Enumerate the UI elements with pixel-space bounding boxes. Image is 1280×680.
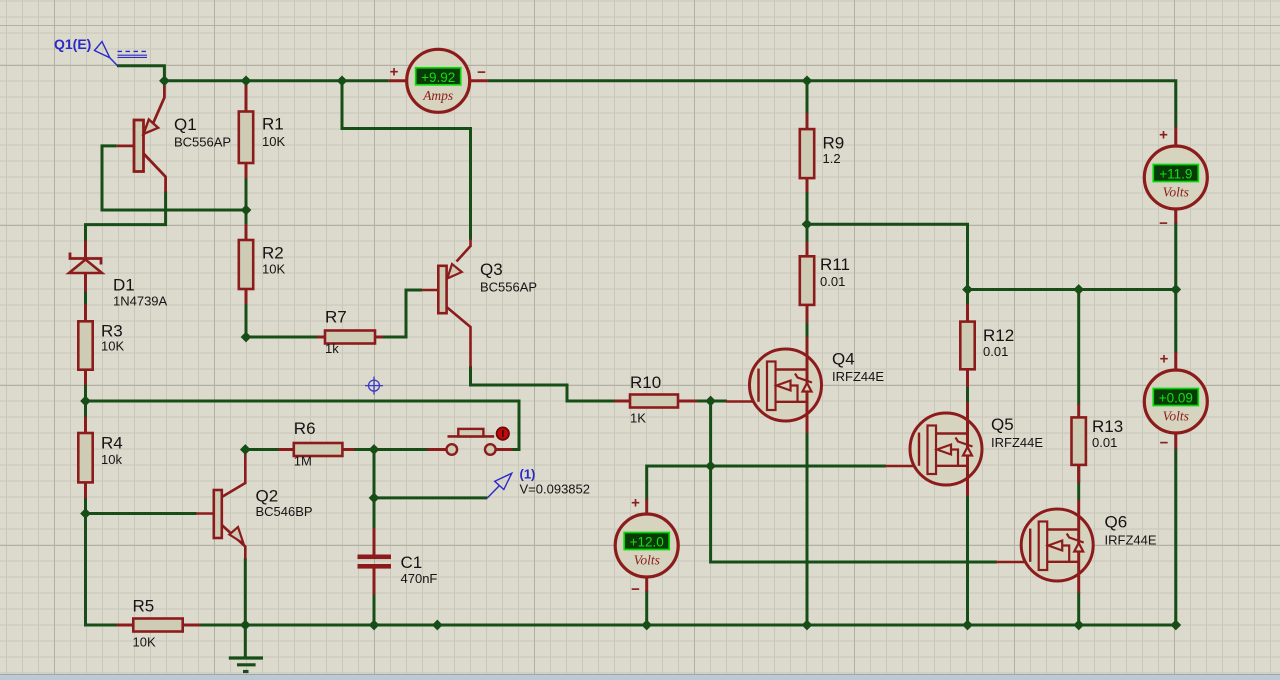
wire Q1 collector to D1 (86, 191, 166, 242)
svg-text:+: + (1160, 351, 1169, 368)
wire Q1 base stub (117, 144, 134, 147)
svg-text:−: − (631, 581, 640, 598)
wire ammeter stubs (389, 79, 407, 82)
svg-text:V=0.093852: V=0.093852 (520, 482, 590, 497)
svg-text:+0.09: +0.09 (1159, 391, 1193, 406)
resistor R3 (78, 321, 124, 369)
resistor R12 (960, 322, 1014, 370)
resistor R10 (630, 373, 678, 426)
origin marker (365, 377, 383, 395)
wire R11 stubs (806, 242, 809, 257)
wire C1 stubs (373, 528, 376, 555)
wire V2 stubs (1174, 352, 1177, 371)
wire R11 bottom to Q4 drain (806, 322, 809, 339)
wire Q1 emitter lead from rail (153, 81, 164, 124)
wire R7 row left (246, 336, 318, 339)
resistor R5 (133, 597, 183, 650)
svg-text:Q1(E): Q1(E) (54, 36, 91, 52)
wire left column down to bottom rail (86, 514, 118, 626)
wire R11 node across and down to R12 node (807, 224, 968, 289)
wire Q3 collector to R10 (471, 366, 616, 401)
svg-text:C1: C1 (401, 553, 423, 572)
wire R12 bottom to Q5 drain (966, 386, 969, 402)
wire R5 stubs (117, 624, 134, 627)
svg-text:IRFZ44E: IRFZ44E (832, 369, 884, 384)
svg-text:10K: 10K (262, 262, 285, 277)
wire R6 stubs (279, 448, 295, 451)
wire Q5 gate stub (885, 465, 919, 468)
svg-text:1M: 1M (294, 454, 312, 469)
svg-text:+12.0: +12.0 (630, 535, 664, 550)
wire V3 plus to Q5 gate row (647, 466, 886, 500)
svg-text:Q2: Q2 (256, 487, 279, 506)
resistor R13 (1072, 417, 1124, 465)
wire right column node down to V2 (1174, 290, 1177, 354)
svg-text:Volts: Volts (634, 553, 660, 568)
resistor R2 (239, 240, 286, 289)
wire top rail right segment to V1 (488, 81, 1176, 128)
svg-text:IRFZ44E: IRFZ44E (991, 435, 1043, 450)
wire R13 bottom to Q6 drain (1077, 464, 1080, 500)
wire ground stub (244, 625, 247, 657)
resistor R4 (78, 433, 122, 482)
wire Q6 source down to bottom rail (1077, 592, 1080, 625)
svg-text:BC556AP: BC556AP (480, 280, 537, 295)
wire R12 node row to right column (968, 288, 1176, 291)
svg-text:10k: 10k (101, 452, 122, 467)
svg-text:Q5: Q5 (991, 415, 1014, 434)
wire Q3 emitter to top rail (342, 81, 471, 240)
svg-text:10K: 10K (262, 134, 285, 149)
svg-text:470nF: 470nF (401, 571, 438, 586)
resistor R1 (239, 112, 286, 164)
wire R7 to Q3 base (383, 290, 423, 337)
wire R12 top stub (966, 290, 969, 306)
wire R9 stubs (806, 113, 809, 130)
wire Q2 emitter to bottom rail (244, 558, 247, 625)
wire V1 bottom to node row (1174, 223, 1177, 290)
wire C1 column upper (373, 450, 376, 529)
resistor R7 (325, 308, 375, 357)
wire R6 row left of body (245, 448, 279, 451)
svg-text:Q3: Q3 (480, 260, 503, 279)
resistor R9 (800, 129, 844, 178)
svg-text:+9.92: +9.92 (421, 70, 455, 85)
meter V1 (Volts +11.9) (1144, 146, 1207, 209)
svg-text:10K: 10K (101, 339, 124, 354)
svg-text:1k: 1k (325, 341, 339, 356)
transistor Q6 (IRFZ44E MOSFET) (1021, 500, 1157, 593)
transistor Q2 (BC546BP NPN) (196, 452, 313, 559)
svg-text:−: − (1160, 435, 1169, 452)
push-button switch (447, 427, 509, 454)
svg-text:R11: R11 (820, 255, 850, 274)
wire Q4 gate node column down to Q6 gate row (711, 401, 997, 562)
svg-text:0.01: 0.01 (1092, 435, 1117, 450)
svg-text:Volts: Volts (1163, 185, 1189, 200)
wire R2 stubs (245, 224, 248, 241)
wire R10 to Q4 gate node (696, 400, 727, 403)
wire Q4 source down to bottom rail (806, 432, 809, 625)
svg-text:+: + (1159, 127, 1168, 144)
transistor Q3 (BC556AP PNP) (422, 239, 537, 367)
svg-text:D1: D1 (113, 276, 135, 295)
svg-text:R13: R13 (1092, 417, 1123, 436)
svg-text:+11.9: +11.9 (1159, 167, 1192, 182)
resistor R6 (294, 419, 343, 469)
wire R1 stubs (245, 85, 248, 112)
wire V3 minus to bottom rail (645, 591, 648, 625)
svg-text:−: − (477, 64, 486, 81)
svg-text:Q4: Q4 (832, 350, 855, 369)
svg-text:0.01: 0.01 (820, 274, 845, 289)
svg-text:+: + (390, 64, 399, 81)
wire R9 bottom to R11 node (806, 191, 809, 224)
voltage probe (1) (487, 467, 590, 498)
svg-text:BC556AP: BC556AP (174, 134, 231, 149)
wire R4 bottom to Q2 base node (84, 497, 87, 514)
wire R9 top stub from rail (806, 81, 809, 114)
svg-text:+: + (631, 495, 640, 512)
wire R10 stubs (615, 400, 631, 403)
meter A1 (Amps +9.92) (407, 49, 470, 112)
svg-text:BC546BP: BC546BP (256, 504, 313, 519)
wire R1 bottom to node (245, 177, 248, 210)
resistor R11 (800, 255, 850, 305)
svg-text:IRFZ44E: IRFZ44E (1105, 533, 1157, 548)
wire R13 stubs (1077, 404, 1080, 418)
capacitor C1 (470nF) (358, 553, 438, 586)
wire D1 to R3 segment (84, 291, 87, 305)
wire C1 bottom to rail (373, 594, 376, 626)
wire R12 stubs (966, 304, 969, 322)
svg-text:Amps: Amps (422, 88, 453, 103)
wire V3 stubs (645, 499, 648, 515)
wire R13 column from node (1077, 290, 1080, 406)
wire R3 bottom through node to R4 (84, 384, 87, 418)
svg-text:1.2: 1.2 (823, 151, 841, 166)
wire R4 stubs (84, 417, 87, 434)
svg-text:(1): (1) (520, 467, 536, 482)
svg-text:R6: R6 (294, 419, 316, 438)
wire switch leads (428, 448, 447, 451)
meter V2 (Volts +0.09) (1144, 370, 1207, 433)
wire left rail to switch (86, 401, 520, 450)
svg-text:R4: R4 (101, 434, 123, 453)
wire R3 stubs (84, 304, 87, 322)
wire Q4 gate stub (726, 400, 758, 403)
wire probe Q1(E) stub (117, 66, 164, 81)
probe label Q1(E) (54, 36, 147, 66)
wire Q5 source down to bottom rail (966, 495, 969, 625)
wire R6 right to C1 node (354, 448, 428, 451)
svg-text:1K: 1K (630, 411, 646, 426)
wire probe (1) row (374, 496, 487, 499)
svg-text:Q1: Q1 (174, 115, 197, 134)
meter V3 (Volts +12.0) (615, 514, 678, 577)
wire V1 stubs (1174, 127, 1177, 147)
svg-text:10K: 10K (133, 635, 156, 650)
wire bottom rail (200, 448, 1176, 625)
wire Q1 base loop to R1/R2 node (102, 146, 246, 210)
transistor Q4 (IRFZ44E MOSFET) (750, 337, 885, 433)
wire Q6 gate stub (996, 561, 1030, 564)
svg-text:R1: R1 (262, 115, 284, 134)
svg-text:−: − (1159, 215, 1168, 232)
wire Q1 collector lead (144, 154, 166, 193)
wire Q2 base row (86, 512, 197, 515)
transistor Q5 (IRFZ44E MOSFET) (910, 402, 1043, 496)
svg-text:Volts: Volts (1163, 409, 1189, 424)
svg-text:0.01: 0.01 (983, 344, 1008, 359)
svg-text:Q6: Q6 (1105, 513, 1128, 532)
wire R1 top stub (245, 81, 248, 86)
window bottom edge strip (0, 675, 1280, 680)
wire R2 top stub (245, 210, 248, 225)
wire R7 stubs (317, 336, 326, 339)
ground (229, 658, 263, 672)
diode D1 (1N4739A zener) (69, 253, 168, 309)
transistor Q1 (BC556AP PNP) (134, 115, 231, 171)
wire D1 stubs (84, 241, 87, 259)
svg-text:R9: R9 (823, 134, 845, 153)
svg-text:R10: R10 (630, 373, 661, 392)
svg-text:R12: R12 (983, 326, 1014, 345)
wire R11 top stub (806, 224, 809, 243)
svg-text:R7: R7 (325, 308, 347, 327)
wire R2 bottom to R7 node (245, 303, 248, 337)
svg-text:R5: R5 (133, 597, 155, 616)
wire top rail left segment (164, 79, 388, 82)
svg-text:R2: R2 (262, 244, 284, 263)
svg-text:1N4739A: 1N4739A (113, 294, 168, 309)
